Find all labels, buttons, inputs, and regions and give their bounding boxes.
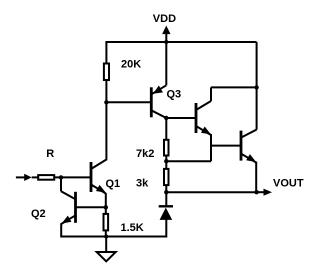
svg-text:1.5K: 1.5K bbox=[121, 222, 144, 234]
svg-text:VDD: VDD bbox=[153, 13, 176, 25]
svg-text:R: R bbox=[46, 148, 54, 160]
svg-text:7k2: 7k2 bbox=[136, 148, 154, 160]
svg-text:3k: 3k bbox=[136, 177, 149, 189]
svg-text:Q3: Q3 bbox=[167, 89, 182, 101]
svg-text:VOUT: VOUT bbox=[273, 178, 304, 190]
svg-text:20K: 20K bbox=[121, 59, 141, 71]
svg-text:Q1: Q1 bbox=[106, 178, 121, 190]
svg-text:Q2: Q2 bbox=[31, 208, 46, 220]
